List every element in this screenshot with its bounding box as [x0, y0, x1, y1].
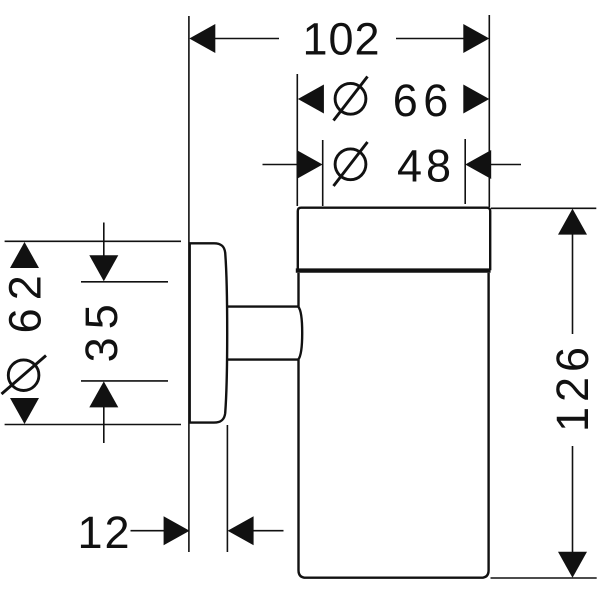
arrow 66 left	[298, 85, 324, 114]
arm cap arc	[298, 307, 302, 360]
svg-text:12: 12	[77, 507, 131, 558]
diameter symbol 66	[334, 77, 368, 121]
diameter symbol 48	[334, 142, 368, 186]
arrow 12 right (points left)	[228, 516, 254, 545]
arrow 126 top (up)	[558, 209, 587, 235]
arrow 35 bottom (up)	[89, 381, 118, 407]
wall plate	[190, 243, 228, 422]
svg-text:62: 62	[0, 267, 51, 333]
ext line 126 top	[491, 207, 596, 209]
arrow 66 right	[463, 85, 489, 114]
arrow 48 right (points left)	[465, 150, 491, 179]
svg-text:102: 102	[302, 13, 380, 64]
ext line 126 bottom	[491, 577, 597, 579]
arrow 12 left (points right)	[164, 516, 190, 545]
arrow 126 bottom (down)	[558, 552, 587, 578]
cup body	[299, 273, 489, 578]
ext line 66 left	[296, 74, 298, 206]
arrow 35 top (down)	[89, 255, 118, 281]
ext line right vertical (102/66)	[488, 15, 490, 207]
dim 48 leaders	[263, 164, 298, 166]
rim bottom thick line	[296, 268, 491, 272]
ext line 35 bottom	[81, 380, 168, 382]
diameter symbol 62 (rotated dim)	[2, 356, 47, 395]
svg-text:48: 48	[397, 141, 455, 192]
arrow 62 top (up)	[10, 242, 39, 268]
dim 102 line segs	[215, 38, 279, 40]
ext line 48 right	[464, 139, 466, 204]
ext line 35 top	[81, 281, 168, 283]
svg-text:66: 66	[393, 75, 454, 126]
ext line 48 left	[322, 140, 324, 206]
arrow 102 right	[463, 24, 489, 53]
dim 35 tails	[103, 223, 105, 257]
arrow 62 bottom (down)	[10, 398, 39, 424]
ext line 12 right	[226, 425, 228, 552]
svg-text:126: 126	[547, 342, 598, 432]
dim 126 line segs	[572, 234, 574, 334]
ext line left vertical (102/12)	[188, 16, 190, 552]
dim 12 tails	[131, 530, 165, 532]
ext line 62 top	[5, 240, 181, 242]
svg-text:35: 35	[76, 296, 127, 362]
arrow 48 left (points right)	[297, 150, 323, 179]
arrow 102 left	[189, 24, 215, 53]
arm	[227, 307, 303, 360]
cup rim	[298, 208, 490, 271]
ext line 62 bottom	[5, 424, 181, 426]
